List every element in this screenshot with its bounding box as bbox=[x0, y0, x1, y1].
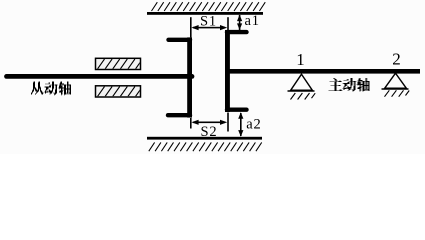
left half-coupling bottom stub bbox=[168, 113, 190, 117]
fixed reference ceiling hatch bbox=[152, 2, 266, 11]
S2 arrowhead right bbox=[220, 120, 227, 125]
driving shaft label (traced glyphs zhu-dong-zhou) bbox=[329, 78, 370, 92]
S2 arrowhead left bbox=[191, 120, 198, 125]
S2 dimension extension line left bbox=[190, 118, 192, 129]
svg-text:S1: S1 bbox=[200, 14, 217, 30]
a2 arrowhead up bbox=[238, 112, 243, 119]
right half-coupling flange vertical bar bbox=[225, 30, 230, 112]
bearing support 2 base line bbox=[382, 88, 409, 90]
bearing support 1 base line bbox=[288, 90, 315, 92]
fixed reference floor line bbox=[147, 137, 262, 140]
svg-text:a2: a2 bbox=[246, 116, 261, 132]
S1 dimension extension line left bbox=[190, 17, 192, 37]
S1 dimension line bbox=[193, 27, 225, 29]
S1 arrowhead right bbox=[220, 25, 227, 30]
S2 dimension extension line right bbox=[227, 113, 229, 132]
bearing support 2 hatch bbox=[385, 90, 410, 96]
driving shaft (right shaft) bbox=[225, 69, 420, 74]
driven shaft label (traced glyphs cong-dong-zhou) bbox=[31, 82, 71, 96]
svg-text:1: 1 bbox=[296, 50, 305, 69]
driven shaft (left shaft) bbox=[7, 74, 193, 79]
a1 arrowhead up bbox=[237, 15, 242, 22]
fixed reference floor hatch bbox=[149, 142, 262, 151]
bearing support 1 triangle bbox=[291, 74, 313, 90]
S1 arrowhead left bbox=[191, 25, 198, 30]
right half-coupling bottom stub bbox=[227, 107, 247, 111]
svg-text:2: 2 bbox=[392, 49, 401, 68]
svg-text:S2: S2 bbox=[201, 124, 218, 140]
a2 dimension line bbox=[240, 113, 242, 136]
bearing block upper (hatched) bbox=[96, 58, 141, 69]
bearing support 2 triangle bbox=[385, 73, 407, 88]
a1 arrowhead down bbox=[237, 23, 242, 30]
fixed reference ceiling line bbox=[147, 12, 263, 15]
S2 dimension line bbox=[193, 122, 225, 124]
a2 arrowhead down bbox=[238, 130, 243, 137]
bearing block lower (hatched) bbox=[96, 86, 141, 97]
left half-coupling top stub bbox=[169, 38, 191, 42]
right half-coupling top stub bbox=[227, 30, 247, 34]
svg-text:a1: a1 bbox=[245, 13, 260, 29]
left half-coupling flange vertical bar bbox=[187, 37, 192, 117]
bearing support 1 hatch bbox=[291, 93, 316, 100]
a1 dimension line bbox=[239, 15, 241, 30]
S1 dimension extension line right bbox=[227, 17, 229, 30]
